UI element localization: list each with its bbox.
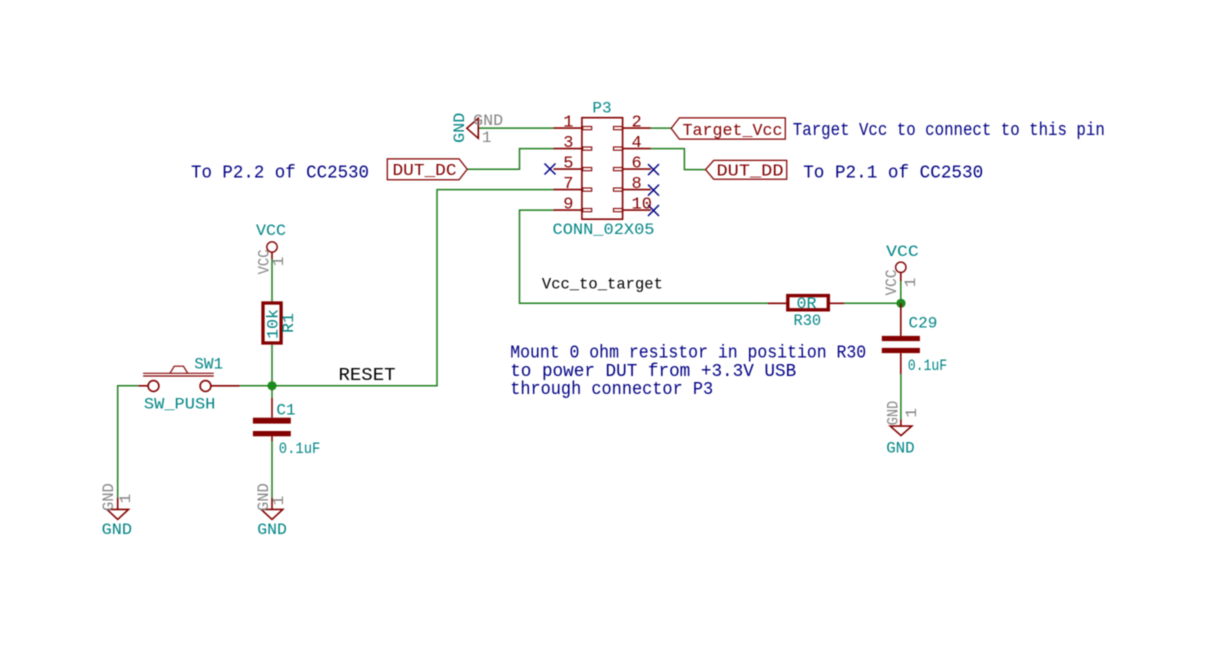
svg-text:SW1: SW1 xyxy=(194,355,223,373)
svg-text:GND: GND xyxy=(257,521,287,539)
svg-text:To P2.1 of CC2530: To P2.1 of CC2530 xyxy=(803,164,983,184)
svg-text:GND: GND xyxy=(885,401,903,426)
svg-text:Target Vcc to connect to this: Target Vcc to connect to this pin xyxy=(793,121,1105,141)
svg-text:1: 1 xyxy=(117,494,135,504)
svg-text:R30: R30 xyxy=(794,312,822,330)
svg-text:through connector P3: through connector P3 xyxy=(510,380,713,400)
svg-text:9: 9 xyxy=(563,195,573,214)
svg-text:8: 8 xyxy=(632,175,642,194)
svg-text:SW_PUSH: SW_PUSH xyxy=(144,396,216,414)
svg-text:C29: C29 xyxy=(909,314,938,332)
svg-text:GND: GND xyxy=(102,521,132,539)
svg-text:Mount 0 ohm resistor in positi: Mount 0 ohm resistor in position R30 xyxy=(510,344,866,364)
svg-text:10: 10 xyxy=(632,195,652,214)
svg-text:To P2.2 of CC2530: To P2.2 of CC2530 xyxy=(191,164,369,184)
svg-text:RESET: RESET xyxy=(339,366,396,386)
svg-text:0.1uF: 0.1uF xyxy=(908,357,948,375)
svg-text:GND: GND xyxy=(451,113,469,143)
svg-text:0.1uF: 0.1uF xyxy=(279,440,321,458)
svg-text:1: 1 xyxy=(563,113,573,132)
svg-text:5: 5 xyxy=(563,154,573,173)
svg-text:P3: P3 xyxy=(592,99,611,117)
svg-text:1: 1 xyxy=(902,278,920,288)
svg-text:3: 3 xyxy=(563,134,573,153)
svg-text:1: 1 xyxy=(270,496,288,506)
svg-text:DUT_DC: DUT_DC xyxy=(393,162,457,181)
svg-text:6: 6 xyxy=(632,154,642,173)
svg-text:Vcc_to_target: Vcc_to_target xyxy=(542,276,663,294)
svg-text:Target_Vcc: Target_Vcc xyxy=(683,122,783,141)
svg-text:C1: C1 xyxy=(276,402,295,420)
svg-text:GND: GND xyxy=(473,112,503,130)
svg-text:1: 1 xyxy=(270,257,288,267)
svg-text:to power DUT from +3.3V USB: to power DUT from +3.3V USB xyxy=(510,362,796,382)
svg-text:DUT_DD: DUT_DD xyxy=(717,162,784,181)
svg-text:1: 1 xyxy=(482,129,492,147)
svg-text:VCC: VCC xyxy=(256,222,286,240)
svg-text:CONN_02X05: CONN_02X05 xyxy=(553,221,655,239)
svg-text:2: 2 xyxy=(632,113,642,132)
svg-text:GND: GND xyxy=(100,483,118,511)
svg-text:R1: R1 xyxy=(280,313,298,333)
svg-text:GND: GND xyxy=(886,440,914,458)
svg-text:4: 4 xyxy=(632,134,642,153)
svg-text:VCC: VCC xyxy=(883,270,901,296)
svg-text:0R: 0R xyxy=(797,295,817,313)
svg-text:7: 7 xyxy=(563,175,573,194)
svg-text:1: 1 xyxy=(903,408,921,418)
svg-text:VCC: VCC xyxy=(886,243,919,261)
